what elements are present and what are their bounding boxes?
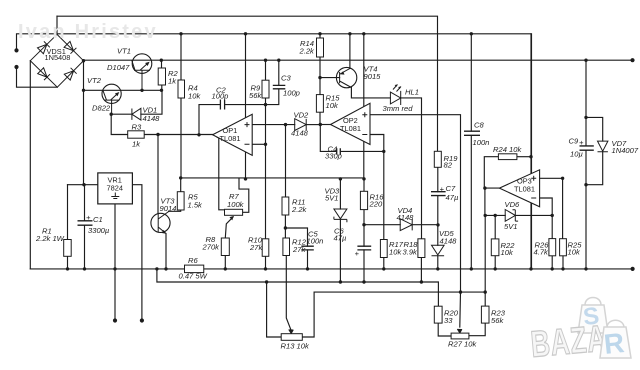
svg-text:1N5408: 1N5408 xyxy=(45,53,71,62)
resistor R10 xyxy=(262,239,269,256)
svg-text:5V1: 5V1 xyxy=(325,194,339,203)
svg-text:27k: 27k xyxy=(249,243,263,252)
wire R5 leads xyxy=(169,178,181,211)
wire OP3 minus jog xyxy=(540,198,553,269)
svg-text:100n: 100n xyxy=(473,138,490,147)
svg-text:4148: 4148 xyxy=(143,114,161,123)
wire OP3 plus input xyxy=(540,178,563,269)
wire R21 wiper slant xyxy=(459,292,462,327)
svg-text:9015: 9015 xyxy=(364,72,382,81)
svg-text:+: + xyxy=(579,138,584,147)
wire OP1out to VT3 base xyxy=(157,135,159,215)
transistor VT4 xyxy=(336,67,356,87)
wire R9 top lead xyxy=(265,60,267,80)
wire R1 leads xyxy=(67,185,69,269)
resistor R23 xyxy=(481,306,489,323)
wire C3 top lead xyxy=(278,60,280,85)
wire C2 feedback riser xyxy=(199,105,220,135)
potentiometer R21 xyxy=(451,333,469,339)
svg-text:TL081: TL081 xyxy=(514,185,535,194)
wire R14 R15 column x320 xyxy=(319,34,321,125)
svg-text:10µ: 10µ xyxy=(570,150,583,159)
resistor R12 xyxy=(283,238,290,256)
resistor R8 xyxy=(221,238,229,256)
svg-text:47µ: 47µ xyxy=(334,234,347,243)
watermark BAZAR text xyxy=(529,318,608,365)
wire C4 branch xyxy=(320,125,384,152)
svg-text:100n: 100n xyxy=(307,237,324,246)
svg-text:10k: 10k xyxy=(326,101,339,110)
wire R19 C7 VD5 column xyxy=(437,167,439,269)
wire VR1 input y184.7 xyxy=(68,184,98,186)
svg-text:4148: 4148 xyxy=(397,213,415,222)
svg-text:220: 220 xyxy=(369,200,383,209)
svg-text:HL1: HL1 xyxy=(405,88,419,97)
svg-text:VD2: VD2 xyxy=(294,111,310,120)
capacitor C8 xyxy=(464,131,480,135)
wire R4 column x181 xyxy=(180,34,182,178)
wire R16 leads xyxy=(363,179,365,225)
resistor R14 xyxy=(317,38,324,57)
wire top rail y16 xyxy=(57,16,438,151)
svg-text:56k: 56k xyxy=(249,91,262,100)
svg-text:R27 10k: R27 10k xyxy=(448,340,477,349)
svg-text:BAZA: BAZA xyxy=(529,318,608,365)
wire OP3 supply column x531 xyxy=(530,34,532,269)
svg-text:C9: C9 xyxy=(569,137,579,146)
svg-text:3mm red: 3mm red xyxy=(383,104,414,113)
resistor R26 xyxy=(549,239,556,256)
wire C8 column xyxy=(470,34,472,269)
wire bridge left vertex down to ground rail xyxy=(29,61,31,269)
svg-text:100k: 100k xyxy=(227,200,245,209)
wire R12 to R13 wiper xyxy=(285,228,290,330)
resistor R3 xyxy=(128,131,145,138)
wire R23 column xyxy=(469,215,485,335)
svg-text:VT1: VT1 xyxy=(117,47,131,56)
wire OP2 output xyxy=(320,124,330,126)
svg-text:27k: 27k xyxy=(292,245,306,254)
svg-text:R3: R3 xyxy=(132,123,142,132)
wire VD4 line y224.7 xyxy=(364,224,438,226)
svg-text:82: 82 xyxy=(444,161,453,170)
bridge diode D-topright xyxy=(64,41,76,53)
wire R13 left riser xyxy=(267,282,282,337)
resistor R24 xyxy=(498,154,517,160)
svg-text:5V1: 5V1 xyxy=(504,222,518,231)
capacitor C5 xyxy=(301,246,314,250)
wire R24 left lead xyxy=(484,157,498,188)
capacitor C6 xyxy=(357,246,371,250)
wire R24 right lead xyxy=(517,156,531,158)
wire C1 leads xyxy=(84,185,86,269)
capacitor C3 xyxy=(273,85,286,88)
svg-text:R6: R6 xyxy=(188,256,198,265)
wire OP2 supply column x364 xyxy=(363,34,365,179)
svg-text:C8: C8 xyxy=(474,121,484,130)
bridge diode D-botright xyxy=(64,68,76,80)
capacitor C2 xyxy=(220,100,224,110)
diode VD1 xyxy=(132,108,141,120)
potentiometer R7 xyxy=(225,209,243,215)
wire VT2 VT1 node y90.3 xyxy=(84,89,162,91)
transistor VT3 xyxy=(151,213,170,232)
svg-text:TL081: TL081 xyxy=(340,124,361,133)
capacitor C4 xyxy=(337,148,341,154)
zener VD6 xyxy=(505,210,518,222)
diode VD7 xyxy=(598,141,608,152)
capacitor C1 xyxy=(78,221,93,225)
resistor R4 xyxy=(178,80,185,98)
svg-text:4148: 4148 xyxy=(291,129,309,138)
svg-text:47µ: 47µ xyxy=(446,193,459,202)
wire R10 column x265.5 xyxy=(265,105,267,269)
resistor R16 xyxy=(360,191,367,209)
op-amp OP2 xyxy=(331,103,371,144)
svg-text:1k: 1k xyxy=(168,77,177,86)
op-amp OP1 xyxy=(213,114,253,155)
wire VR1 output to terminal xyxy=(132,185,142,321)
svg-text:VT2: VT2 xyxy=(87,76,102,85)
svg-text:C7: C7 xyxy=(446,184,456,193)
potentiometer R13 xyxy=(281,334,302,341)
svg-text:4.7k: 4.7k xyxy=(534,248,550,257)
resistor R2 xyxy=(158,68,165,85)
wire main lower rail y268.9 xyxy=(30,268,632,270)
wire C9 VD7 branch xyxy=(586,60,603,269)
resistor R20 xyxy=(434,306,442,323)
wire OP1 pin to R7 left xyxy=(217,137,224,210)
wire OP1 supply column x245.5 xyxy=(245,34,247,179)
svg-text:56k: 56k xyxy=(491,316,504,325)
diode VD5 xyxy=(432,245,445,255)
bridge diode D-botleft xyxy=(38,68,50,80)
svg-text:TL081: TL081 xyxy=(220,134,241,143)
svg-text:10k: 10k xyxy=(568,248,581,257)
wire C2 right to R9 C3 bottoms xyxy=(225,89,279,104)
wire R13 right riser to y292 line xyxy=(302,292,485,337)
zener VD3 xyxy=(334,209,347,222)
wire C6 branch xyxy=(363,225,365,282)
wire OP3 output xyxy=(485,188,500,215)
wire bridge+ column x84 xyxy=(83,61,85,185)
resistor R1 xyxy=(64,240,71,257)
wire HL1 cathode to R18 xyxy=(401,98,422,282)
wire OP1 output xyxy=(158,134,213,136)
svg-text:+: + xyxy=(440,185,445,194)
svg-text:2.2k: 2.2k xyxy=(299,47,316,56)
svg-text:4148: 4148 xyxy=(440,237,458,246)
svg-text:1k: 1k xyxy=(132,140,141,149)
svg-text:+: + xyxy=(355,249,360,258)
wire VT1 through rail y60.2 xyxy=(84,59,633,61)
wire bridge top to rail16 xyxy=(56,16,58,34)
svg-text:C3: C3 xyxy=(281,74,291,83)
svg-text:10k: 10k xyxy=(501,248,514,257)
wire OP2 plus input long xyxy=(370,115,461,292)
svg-text:10k: 10k xyxy=(188,92,201,101)
bridge rectifier VDS1 xyxy=(30,34,83,87)
wire R20 bottom to R21 xyxy=(438,323,451,336)
svg-text:9014: 9014 xyxy=(160,204,177,213)
wire R11 column xyxy=(284,125,286,228)
capacitor C9 xyxy=(580,146,594,150)
LED HL1 xyxy=(390,91,400,105)
resistor R19 xyxy=(434,151,441,167)
svg-text:2.2k 1W: 2.2k 1W xyxy=(35,234,65,243)
capacitor C7 xyxy=(431,192,446,196)
wire VD6 line y215.4 xyxy=(485,214,552,216)
wire R8 bottom xyxy=(224,256,226,269)
svg-text:+: + xyxy=(86,213,91,222)
wire rail y33.8 xyxy=(17,34,532,269)
svg-text:100p: 100p xyxy=(212,92,229,101)
svg-text:270k: 270k xyxy=(202,242,221,251)
wire VD1 node xyxy=(111,90,162,114)
resistor R6 xyxy=(185,265,204,273)
resistor R25 xyxy=(560,239,567,256)
resistor R5 xyxy=(177,192,184,210)
wire OP1 plus input xyxy=(252,124,295,126)
svg-text:100p: 100p xyxy=(283,89,300,98)
resistor R9 xyxy=(262,80,269,98)
wire VR1 ground to terminal xyxy=(114,204,116,321)
wire R2 leads xyxy=(161,60,163,90)
wire rail y178.8 xyxy=(181,177,364,179)
svg-text:1.5k: 1.5k xyxy=(188,201,204,210)
svg-text:R: R xyxy=(602,327,625,360)
resistor R17 xyxy=(380,240,387,258)
wire VD2 cathode to OP2 out node xyxy=(306,124,320,126)
svg-text:330p: 330p xyxy=(325,152,342,161)
junction dots xyxy=(14,48,18,52)
svg-text:10k: 10k xyxy=(389,248,402,257)
VR1 ground pin symbol xyxy=(111,193,119,199)
svg-text:Ivan Hristev: Ivan Hristev xyxy=(18,21,158,43)
bridge diode D-topleft xyxy=(38,41,50,53)
watermark small bag with R xyxy=(600,320,631,358)
diode VD2 xyxy=(295,119,307,131)
svg-text:3300µ: 3300µ xyxy=(88,226,110,235)
svg-text:33: 33 xyxy=(444,316,453,325)
svg-text:VD6: VD6 xyxy=(505,200,521,209)
wire AC2 input to bridge bottom xyxy=(17,67,58,87)
wire R7 right jog to rail178.8 xyxy=(239,179,249,212)
wire C5 branch xyxy=(285,228,307,269)
wire second rail y282 xyxy=(157,269,439,306)
diode VD4 xyxy=(400,219,412,231)
wire R7 wiper to R8 xyxy=(225,217,233,238)
watermark bazar bag xyxy=(578,298,608,334)
wire C4 node to R17 xyxy=(383,151,385,269)
wire R22 leads xyxy=(494,215,496,269)
arrow R13 wiper head xyxy=(289,329,293,333)
wire VT4 base xyxy=(320,77,340,79)
transistor VT1 xyxy=(132,54,152,74)
svg-text:D822: D822 xyxy=(92,104,111,113)
resistor R11 xyxy=(282,197,289,215)
regulator VR1 box xyxy=(98,173,133,204)
wire VD3 branch xyxy=(339,179,341,282)
svg-text:2.2k: 2.2k xyxy=(291,205,308,214)
resistor R15 xyxy=(316,95,323,113)
svg-text:1N4007: 1N4007 xyxy=(612,146,639,155)
svg-text:D1047: D1047 xyxy=(107,63,130,72)
wire OP2 minus jog xyxy=(370,135,384,152)
wire OP1 minus input xyxy=(252,143,265,145)
resistor R22 xyxy=(491,239,499,256)
wire VT4 collector to HL1 xyxy=(351,88,390,98)
wire VT4 emitter from rail xyxy=(349,34,351,69)
wire VT3 emitter drop xyxy=(165,234,167,269)
svg-text:R24 10k: R24 10k xyxy=(493,145,522,154)
svg-text:C1: C1 xyxy=(93,215,103,224)
op-amp OP3 xyxy=(499,170,539,207)
transistor VT2 xyxy=(102,84,121,103)
resistor R18 xyxy=(418,239,425,258)
svg-text:3.9k: 3.9k xyxy=(403,248,419,257)
svg-text:0.47 5W: 0.47 5W xyxy=(179,272,208,281)
wire R3 path xyxy=(111,114,158,134)
svg-text:R13 10k: R13 10k xyxy=(281,342,310,351)
svg-text:7824: 7824 xyxy=(107,184,123,193)
